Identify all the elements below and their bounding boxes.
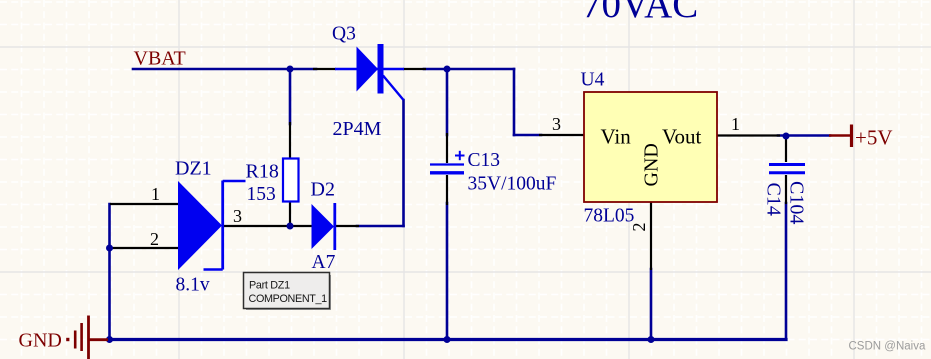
svg-text:C104: C104 [786,181,808,224]
svg-text:CSDN @Naiva: CSDN @Naiva [849,341,926,353]
svg-text:A7: A7 [312,252,336,273]
svg-text:2: 2 [150,229,159,249]
svg-text:DZ1: DZ1 [175,158,212,180]
svg-text:3: 3 [233,206,242,226]
svg-text:2P4M: 2P4M [333,118,382,140]
svg-text:Part DZ1: Part DZ1 [249,280,290,292]
svg-text:Vin: Vin [601,125,632,149]
svg-text:C14: C14 [763,183,785,216]
svg-text:+5V: +5V [855,126,893,150]
svg-text:35V/100uF: 35V/100uF [468,174,557,195]
svg-text:78L05: 78L05 [584,206,635,227]
svg-text:GND: GND [641,143,663,186]
svg-text:VBAT: VBAT [134,48,186,70]
svg-text:1: 1 [731,114,740,134]
svg-text:2: 2 [629,223,649,232]
svg-text:Vout: Vout [662,125,701,149]
svg-text:R18: R18 [246,161,279,183]
svg-text:COMPONENT_1: COMPONENT_1 [249,293,328,305]
svg-text:153: 153 [247,184,276,205]
svg-text:U4: U4 [581,70,605,91]
svg-text:Q3: Q3 [332,24,356,45]
svg-text:3: 3 [552,114,561,134]
svg-text:8.1v: 8.1v [176,275,210,296]
svg-text:D2: D2 [311,179,335,201]
svg-text:1: 1 [151,184,160,204]
svg-text:GND: GND [19,330,62,352]
svg-text:70VAC: 70VAC [582,0,698,26]
svg-text:C13: C13 [468,150,501,171]
